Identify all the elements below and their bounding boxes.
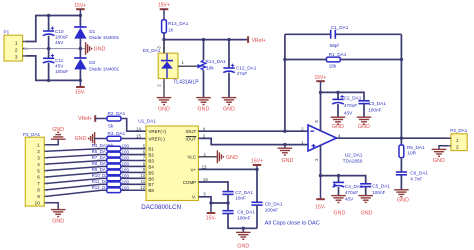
junction bottom rail / C11: [47, 79, 50, 82]
svg-text:5: 5: [37, 168, 40, 173]
diode D2 1N4001: [79, 49, 81, 58]
svg-text:100nF: 100nF: [368, 107, 381, 112]
junction mid rail / D1-D2: [79, 47, 82, 50]
svg-text:C12_DA1: C12_DA1: [236, 65, 257, 70]
wire P1 pin3 to -15V rail: [26, 56, 80, 81]
capacitor C1 68pf: [285, 33, 331, 35]
wire U1 pin1 VLC to GND: [198, 156, 217, 158]
svg-text:GND: GND: [433, 158, 445, 164]
wire P2 pin4 to R7: [46, 161, 102, 165]
wire P2 pin3 to R6: [46, 155, 102, 158]
ground GND below C4: [331, 195, 346, 197]
wire R13 to VRef+ rail: [163, 33, 165, 53]
svg-text:8: 8: [37, 188, 40, 193]
svg-text:15V+: 15V+: [251, 159, 263, 165]
resistor R5 10R: [400, 138, 402, 145]
wire R11 to U1 B7: [121, 183, 146, 185]
svg-text:16: 16: [203, 177, 208, 182]
svg-text:B4: B4: [148, 164, 154, 169]
wire R2 to U1 pin14: [121, 119, 146, 132]
wire R4 to U1 B1: [121, 148, 146, 150]
svg-text:10nF: 10nF: [235, 196, 246, 201]
junction +15V rail / C2: [336, 91, 339, 94]
junction VRef rail / R14: [202, 38, 205, 41]
svg-text:GND: GND: [158, 106, 170, 112]
trimmer R14 10k: [203, 40, 205, 61]
svg-text:C1_DA1: C1_DA1: [331, 25, 349, 30]
resistor R13 1k: [162, 20, 167, 33]
wire U2 pin5 to +15V rail: [320, 92, 322, 131]
svg-text:B5: B5: [148, 170, 154, 175]
svg-text:C9_DA1: C9_DA1: [237, 209, 255, 214]
wire R8 to U1 B4: [121, 165, 146, 167]
svg-text:TDA2050: TDA2050: [343, 158, 363, 163]
junction bottom rail / D2 / -15V: [79, 79, 82, 82]
svg-text:9: 9: [37, 194, 40, 199]
svg-text:C6_DA1: C6_DA1: [410, 170, 428, 175]
wire U1 pin16 COMP to C7: [198, 182, 228, 191]
svg-text:15: 15: [136, 134, 141, 139]
svg-text:11: 11: [141, 179, 146, 184]
svg-text:6: 6: [37, 175, 40, 180]
junction top rail / C10: [47, 14, 50, 17]
svg-text:GND: GND: [358, 124, 370, 130]
svg-text:V+: V+: [191, 167, 197, 172]
svg-text:GND: GND: [52, 219, 64, 225]
svg-text:R3_DA1: R3_DA1: [108, 131, 126, 136]
svg-text:R13_DA1: R13_DA1: [168, 21, 189, 26]
svg-text:C8_DA1: C8_DA1: [265, 201, 283, 206]
svg-text:3: 3: [37, 155, 40, 160]
capacitor C4 470uF 45V: [338, 176, 340, 183]
svg-text:C5_DA1: C5_DA1: [372, 184, 390, 189]
svg-text:100nF: 100nF: [237, 215, 250, 220]
wire feedback left vertical: [284, 34, 286, 131]
junction +15V rail / pin5: [319, 91, 322, 94]
svg-text:VRef+: VRef+: [252, 38, 266, 44]
wire R3 to U1 pin15: [121, 138, 146, 140]
svg-text:GND: GND: [237, 244, 249, 250]
svg-text:GND: GND: [223, 106, 235, 112]
svg-text:100uF: 100uF: [55, 69, 68, 74]
power port +15V at U1 pin13: [256, 165, 258, 169]
wire C7 to V- node: [227, 194, 229, 203]
svg-text:4.7nF: 4.7nF: [410, 176, 422, 181]
svg-text:470uF: 470uF: [345, 190, 358, 195]
svg-text:U2_DA1: U2_DA1: [345, 152, 363, 157]
wire R6 to U1 B2: [121, 154, 146, 156]
ground GND mid rail: [85, 42, 87, 55]
svg-text:IOUT: IOUT: [185, 136, 196, 141]
wire D3 pin3 to rail: [163, 40, 165, 54]
resistor R3 5k: [95, 138, 107, 140]
svg-text:B7: B7: [148, 182, 154, 187]
svg-text:15V-: 15V-: [75, 90, 86, 96]
resistor R2 5k: [95, 118, 107, 120]
ground GND at P3 pin2: [432, 148, 447, 150]
power port -15V at U2: [320, 176, 322, 199]
junction V- wire / -15V port: [209, 201, 212, 204]
capacitor C2 470uF 45V: [337, 92, 339, 99]
junction -15V rail / C4: [337, 174, 340, 177]
wire P3 pin2 to GND: [439, 146, 448, 149]
ground GND above P2 pin1: [51, 138, 66, 140]
svg-text:10: 10: [35, 200, 41, 205]
junction top rail / D1 / +15V: [79, 14, 82, 17]
wire U2 pin4 output to P3: [337, 137, 452, 139]
junction feedback left / R1: [283, 58, 286, 61]
svg-text:10: 10: [140, 173, 145, 178]
svg-text:10R: 10R: [407, 151, 416, 156]
svg-text:10k: 10k: [206, 65, 214, 70]
svg-text:45V: 45V: [55, 40, 64, 45]
svg-text:C11: C11: [55, 58, 64, 63]
ground GND below C6: [394, 189, 409, 191]
svg-text:GND: GND: [282, 158, 294, 164]
junction V+ / C8: [255, 168, 258, 171]
power port -15V bottom-left: [79, 80, 81, 86]
svg-text:1: 1: [37, 143, 40, 148]
junction VRef rail / C12: [227, 38, 230, 41]
wire D3 pin1 to R14 wiper: [178, 65, 197, 67]
wire C9 to GND rail: [228, 214, 257, 229]
wire U1 pin4 IOUT to U2 pin2: [198, 130, 308, 132]
wire P2 pin6 to R9: [46, 172, 102, 177]
svg-text:15k: 15k: [329, 64, 337, 69]
svg-text:DAC0800LCN: DAC0800LCN: [141, 204, 181, 211]
capacitor C8 100nF: [256, 169, 258, 202]
wire U1 pin2 IOUTbar to U2 pin1: [198, 138, 308, 144]
svg-text:14: 14: [136, 127, 141, 132]
svg-text:B1: B1: [148, 147, 154, 152]
svg-text:Diode 1N4001: Diode 1N4001: [89, 66, 119, 71]
svg-text:100uF: 100uF: [55, 35, 68, 40]
junction IOUTbar wire / GND drop: [283, 143, 286, 146]
connector P2: [25, 137, 44, 206]
svg-text:U1_DA1: U1_DA1: [138, 119, 156, 124]
svg-text:2: 2: [15, 48, 18, 54]
svg-text:GND: GND: [332, 124, 344, 130]
wire R9 to U1 B5: [121, 171, 146, 173]
wire -15V rail to C4 C5: [321, 176, 366, 184]
svg-text:VRef+: VRef+: [78, 116, 92, 122]
port VRef+ (net label right): [247, 36, 249, 43]
wire U2 pin3 to -15V rail: [320, 145, 322, 176]
ground GND below C12: [222, 97, 237, 99]
svg-text:Diode 1N4001: Diode 1N4001: [89, 35, 119, 40]
junction -15V rail / pin3: [319, 174, 322, 177]
svg-text:P1: P1: [4, 30, 10, 35]
svg-text:3: 3: [15, 55, 18, 61]
svg-text:GND: GND: [198, 106, 210, 112]
junction output / feedback / R5: [400, 137, 403, 140]
svg-text:P3_DA1: P3_DA1: [450, 128, 468, 133]
resistor R1 15k: [285, 59, 327, 61]
svg-text:68pf: 68pf: [330, 43, 340, 48]
wire P2 pin2 to R4: [46, 149, 102, 152]
diode D1 1N4001: [79, 16, 81, 28]
svg-text:TL431AILP: TL431AILP: [173, 79, 199, 85]
svg-text:47uF: 47uF: [237, 71, 248, 76]
capacitor C6 4.7nF: [396, 171, 407, 173]
capacitor C12 47uF: [228, 40, 230, 68]
svg-text:GND: GND: [75, 136, 87, 142]
svg-text:R2_DA1: R2_DA1: [108, 111, 126, 116]
ground GND below P2 pin10: [51, 209, 66, 211]
svg-text:VREF(+): VREF(+): [148, 129, 166, 134]
svg-text:GND: GND: [94, 47, 106, 53]
ground GND below D3: [157, 97, 172, 99]
svg-text:IOUT: IOUT: [185, 129, 196, 134]
svg-text:B3: B3: [148, 158, 154, 163]
svg-text:15V-: 15V-: [206, 216, 217, 222]
svg-text:12: 12: [140, 185, 145, 190]
junction VRef rail / D3: [162, 38, 165, 41]
wire R12 to U1 B8: [121, 189, 146, 191]
wire +15V rail to C2 C3: [321, 92, 365, 100]
capacitor C5 100nF: [360, 183, 371, 185]
wire P2 pin5 to R8: [46, 166, 102, 170]
junction mid rail / C10-C11: [47, 47, 50, 50]
svg-text:B6: B6: [148, 176, 154, 181]
wire P1 pin1 to +15V rail: [26, 16, 80, 42]
svg-text:15V+: 15V+: [74, 3, 86, 9]
wire P2 pin9 to R12: [46, 190, 102, 196]
svg-text:100nF: 100nF: [372, 190, 385, 195]
svg-text:VLC: VLC: [187, 155, 197, 160]
svg-text:D2: D2: [89, 60, 95, 65]
capacitor C3 100nF: [358, 100, 369, 102]
svg-text:2: 2: [37, 149, 40, 154]
svg-text:7: 7: [37, 181, 40, 186]
wire P2 pin7 to R10: [46, 178, 102, 183]
svg-text:C7_DA1: C7_DA1: [235, 190, 253, 195]
wire feedback right vertical: [400, 34, 402, 138]
svg-text:V-: V-: [192, 195, 197, 200]
svg-text:All Caps close to DAC: All Caps close to DAC: [265, 220, 320, 226]
op-amp U2 TDA2050: [308, 125, 337, 151]
connector P1: [4, 35, 23, 61]
svg-text:1: 1: [456, 138, 459, 143]
ground GND below C2: [331, 116, 346, 118]
svg-text:1k: 1k: [168, 28, 174, 33]
power port -15V at U1 pin3: [210, 203, 212, 213]
wire D3 pin2 to GND: [163, 79, 165, 98]
svg-text:B2: B2: [148, 152, 154, 157]
wire R7 to U1 B3: [121, 160, 146, 162]
ground GND at U2 +input: [284, 145, 286, 148]
svg-text:R5_DA1: R5_DA1: [407, 145, 425, 150]
svg-text:1: 1: [15, 40, 18, 46]
capacitor C11 45V 100uF: [48, 49, 50, 59]
junction feedback right / R1: [400, 58, 403, 61]
svg-text:R1_DA1: R1_DA1: [329, 52, 347, 57]
junction GND rail / GND stem: [242, 227, 245, 230]
svg-text:15V+: 15V+: [314, 75, 326, 81]
svg-text:C10: C10: [55, 29, 64, 34]
svg-text:GND: GND: [361, 210, 373, 216]
svg-text:45V: 45V: [345, 197, 354, 202]
wire U1 pin13 to +15V: [198, 168, 257, 170]
wire R10 to U1 B6: [121, 177, 146, 179]
ground GND at U1 VLC: [216, 150, 218, 163]
wire R5 to C6: [400, 158, 402, 172]
svg-text:2: 2: [456, 144, 459, 149]
svg-text:5k: 5k: [108, 123, 114, 128]
svg-text:C3_DA1: C3_DA1: [368, 101, 386, 106]
svg-text:45V: 45V: [55, 63, 64, 68]
capacitor C10 100uF 45V: [48, 16, 50, 32]
svg-text:VREF(-): VREF(-): [148, 136, 165, 141]
svg-text:GND: GND: [52, 127, 64, 133]
svg-text:45V: 45V: [344, 110, 353, 115]
ground GND below DAC caps: [242, 228, 244, 232]
svg-text:GND: GND: [334, 210, 346, 216]
ground GND below C3: [357, 116, 372, 118]
svg-text:B8: B8: [148, 188, 154, 193]
wire P2 pin8 to R11: [46, 184, 102, 190]
svg-text:4: 4: [37, 162, 40, 167]
svg-text:13: 13: [202, 165, 207, 170]
ground GND below R14: [196, 97, 211, 99]
svg-text:470uF: 470uF: [344, 103, 357, 108]
capacitor C9 100nF: [227, 203, 229, 210]
wire P2 pin10 to GND: [46, 203, 58, 210]
svg-text:GND: GND: [226, 155, 238, 161]
svg-text:C2_DA1: C2_DA1: [344, 95, 362, 100]
svg-text:R14_DA1: R14_DA1: [205, 59, 226, 64]
svg-text:100nF: 100nF: [265, 207, 278, 212]
svg-text:15V+: 15V+: [158, 3, 170, 9]
svg-text:P2_DA1: P2_DA1: [23, 132, 41, 137]
capacitor C7 10nF: [222, 191, 233, 193]
svg-text:GND: GND: [397, 198, 409, 204]
junction IOUT / feedback: [283, 130, 286, 133]
junction V- wire / C7-C9: [226, 201, 229, 204]
svg-text:15V-: 15V-: [315, 204, 326, 210]
ground GND below C5: [358, 195, 373, 197]
wire P2 pin1 to GND: [46, 139, 58, 144]
wire P1 pin2 to GND (mid rail): [24, 48, 85, 50]
svg-text:D1: D1: [89, 29, 95, 34]
wire U1 pin3 V-: [198, 197, 228, 203]
svg-text:COMP: COMP: [183, 180, 197, 185]
